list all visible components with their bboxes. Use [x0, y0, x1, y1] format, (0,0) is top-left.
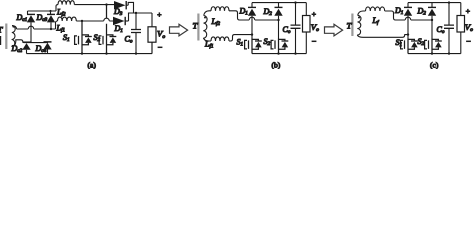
capacitor C_1 top lead [135, 13, 137, 29]
svg-text:+: + [466, 7, 470, 16]
primary winding stub (cut at edge) [0, 36, 2, 45]
svg-text:S2: S2 [94, 33, 101, 43]
svg-text:(b): (b) [272, 61, 281, 70]
junction dot at D_c3 anode [50, 28, 52, 30]
svg-text:−: − [158, 43, 163, 52]
svg-text:+: + [157, 10, 161, 19]
svg-text:Lf2: Lf2 [56, 7, 66, 17]
svg-text:(a): (a) [88, 61, 97, 70]
diode D_2 (b) [274, 3, 282, 39]
wire: top output bus (c) [408, 3, 461, 16]
transformer T core (c) [351, 14, 353, 37]
transformer T winding (c) [357, 15, 361, 35]
diode D_2 (c) [428, 3, 436, 39]
node wire: secondary top terminal (with crossover hump at x30, dot at x50) [17, 26, 56, 29]
load resistor box (b) [303, 16, 311, 33]
load resistor box (c) [457, 16, 465, 33]
svg-text:Vo: Vo [465, 22, 473, 33]
wire: bottom rail (b) [252, 53, 306, 55]
MOSFET S_1 (c) [401, 39, 418, 54]
svg-text:D1: D1 [114, 24, 124, 34]
diode D_c2 [22, 42, 30, 53]
transformer T polarity dot (b) [204, 17, 206, 19]
svg-text:D2: D2 [263, 7, 273, 17]
svg-text:−: − [466, 37, 471, 46]
svg-text:Dc4: Dc4 [35, 44, 47, 54]
junction dot D_2 anode / S_2 drain (b) [277, 19, 279, 21]
wire: top lead to L_f2 (b) [204, 11, 211, 16]
svg-text:−: − [312, 37, 317, 46]
svg-text:D1: D1 [239, 6, 249, 16]
wire: step down to cross line y=20 (c) [385, 11, 396, 20]
inductor L_f1 [58, 17, 77, 21]
inductor L_f2 (b) [211, 7, 229, 11]
svg-text:S1: S1 [63, 33, 70, 43]
MOSFET S_2 (b) [271, 39, 288, 54]
wire: mid rail y=21 with hump over S_2 drain [76, 18, 113, 21]
svg-text:+: + [312, 10, 316, 19]
svg-text:Co: Co [125, 35, 133, 45]
svg-text:Vo: Vo [157, 29, 165, 40]
wire: top lead to L_f (c) [358, 11, 366, 16]
wire: bottom rail (a) [27, 42, 153, 53]
diode D_1 (c) [404, 3, 412, 39]
svg-text:S2: S2 [264, 37, 271, 47]
block arrow b to c [325, 24, 343, 36]
transformer T polarity dot [12, 26, 14, 28]
transformer T core (b) [197, 14, 199, 41]
transformer T polarity dot (c) [358, 17, 360, 19]
inductor L_f (c) [366, 7, 385, 11]
wire: bus rise to L_f2 [56, 5, 58, 11]
svg-text:T: T [0, 25, 4, 35]
junction dot S_2 source (c) [431, 52, 433, 54]
junction dot S_2 source (b) [277, 52, 279, 54]
transformer bottom lead wire [12, 40, 24, 47]
junction dot on bus [49, 10, 51, 12]
MOSFET S_2 [99, 5, 116, 54]
svg-text:S2: S2 [418, 37, 425, 47]
wire: top output bus (b) [252, 3, 306, 16]
svg-text:Dc2: Dc2 [11, 44, 23, 54]
load resistor box [151, 13, 153, 27]
svg-text:(c): (c) [430, 61, 439, 70]
junction dot C_1 return [135, 52, 137, 54]
capacitor C_1 plates [131, 30, 141, 33]
junction dot S_2 source [105, 52, 107, 54]
svg-text:D3: D3 [113, 7, 123, 17]
capacitor C_1 bottom lead [135, 33, 137, 54]
diode D_1 (b) [248, 3, 256, 39]
inductor L_f2 [58, 1, 74, 5]
block arrow a to b [170, 24, 188, 36]
svg-text:S1: S1 [237, 37, 244, 47]
svg-text:S1: S1 [396, 38, 403, 48]
junction dot cap tap (c) [448, 1, 450, 3]
junction dot output node [135, 12, 137, 14]
transformer T winding (b) [203, 16, 207, 39]
wire: rise to L_f1 [56, 21, 58, 29]
capacitor C_o (b) [295, 3, 297, 25]
junction dot D_2 anode / S_2 drain (c) [431, 19, 433, 21]
transformer top lead wire [12, 26, 17, 30]
wire: output node rail y=13 [129, 13, 153, 21]
wire: step down to cross line y=20 (b) [229, 11, 240, 20]
wire: cross line y=20 with hump over S_1 leg (b) [240, 17, 279, 20]
svg-text:Co: Co [283, 25, 291, 35]
svg-text:Dc3: Dc3 [36, 13, 48, 23]
junction dot C_o return (b) [294, 52, 296, 54]
wire: bottom lead direct to S_1 drain (c) [357, 35, 408, 38]
svg-text:Lf1: Lf1 [204, 39, 214, 49]
diode D_c1 [27, 14, 35, 42]
wire: bottom rail (c) [408, 53, 461, 55]
junction dot C_o return (c) [448, 52, 450, 54]
wire: top rail y=4.6 to D_3 [74, 4, 114, 6]
svg-text:Vo: Vo [311, 22, 319, 33]
diode D_3 [114, 1, 128, 9]
svg-text:D1: D1 [394, 6, 404, 16]
svg-text:Lf: Lf [372, 16, 380, 26]
wire: cross line y=20 with hump over S_1 leg (c) [396, 17, 433, 20]
junction dot S_1 drain (b) [251, 33, 253, 35]
svg-text:Dc1: Dc1 [16, 13, 28, 23]
wire: bottom lead to L_f1 (b) [204, 38, 211, 41]
junction dot cap tap (b) [294, 1, 296, 3]
svg-text:Co: Co [437, 25, 445, 35]
MOSFET S_1 (b) [245, 39, 262, 54]
wire: D_3 cathode loop to output node [128, 2, 133, 13]
svg-text:Lf2: Lf2 [211, 17, 221, 27]
diode D_c4 [43, 42, 51, 54]
diode D_1 [113, 17, 129, 25]
node wire: secondary bottom terminal y=42.5 [24, 42, 48, 44]
transformer T core [5, 24, 7, 50]
junction dot S_1 drain (c) [407, 33, 409, 35]
inductor L_f1 (b) [211, 37, 229, 41]
wire: clamp cathode bus y=11 [28, 11, 57, 14]
transformer T secondary winding [11, 26, 15, 47]
capacitor C_o (c) [448, 3, 450, 25]
MOSFET S_2 (c) [425, 39, 442, 54]
junction dot S_2 drain tap [105, 3, 107, 5]
wire: L_f1 to S_1 drain (b) [229, 35, 252, 41]
junction dot S_1 drain tap [81, 20, 83, 22]
svg-text:D2: D2 [417, 6, 427, 16]
MOSFET S_1 [75, 21, 92, 54]
diode D_c3 [47, 14, 55, 29]
junction dot S_1 source [81, 52, 83, 54]
